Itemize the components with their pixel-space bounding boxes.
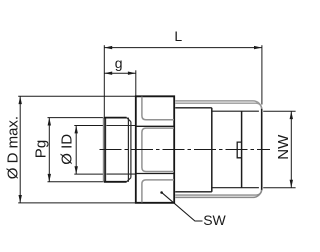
sleeve top edge <box>175 107 212 109</box>
hex chamfer arc middle facet <box>142 128 174 171</box>
dimension Pg arrow bottom <box>48 174 51 182</box>
hex nut outline <box>136 96 174 203</box>
body shell outer line bottom <box>175 189 262 198</box>
SW leader line <box>161 192 202 221</box>
dimension NW arrow bottom <box>290 180 293 188</box>
dimension ID line <box>75 126 77 175</box>
bore line top (thread zone) <box>106 125 135 127</box>
dimension ID extension bottom <box>74 173 103 175</box>
latch tab <box>237 142 241 158</box>
dimension ID extension top <box>74 125 103 127</box>
dimension L arrow left <box>104 46 112 49</box>
centerline <box>100 149 271 151</box>
svg-text:Ø D max.: Ø D max. <box>4 116 21 179</box>
thread end face <box>130 122 132 178</box>
body shell inner line bottom <box>175 190 262 195</box>
hex facet line lower <box>136 173 174 175</box>
svg-text:Ø ID: Ø ID <box>58 134 75 165</box>
dimension D max arrow bottom <box>19 195 22 203</box>
dimension Pg extension top <box>48 117 103 119</box>
dimension Pg extension bottom <box>48 181 103 183</box>
dimension g arrow right <box>128 72 136 75</box>
dimension ID arrow top <box>75 126 78 134</box>
sleeve bottom edge <box>175 191 212 193</box>
SW leader dot <box>160 191 163 194</box>
svg-text:Pg: Pg <box>32 140 49 158</box>
hex chamfer arc top facet <box>142 97 174 120</box>
dimension D max line <box>19 96 21 203</box>
dimension g extension right <box>135 70 137 96</box>
sleeve right edge <box>211 108 213 192</box>
body shell outer line top <box>175 101 262 110</box>
thread chamfer bottom <box>127 178 131 182</box>
svg-text:g: g <box>115 55 123 71</box>
dimension Pg arrow top <box>48 118 51 126</box>
thread runout line <box>127 118 129 182</box>
dimension NW extension bottom <box>263 187 295 189</box>
body right end face <box>261 109 263 190</box>
dimension NW arrow top <box>290 111 293 119</box>
dimension D max arrow top <box>19 96 22 104</box>
dimension ID arrow bottom <box>75 166 78 174</box>
fitting left end face <box>104 118 106 182</box>
bore opening top line <box>212 110 259 112</box>
dimension L line <box>104 47 262 49</box>
inner back wall <box>241 111 243 188</box>
svg-text:NW: NW <box>275 134 292 160</box>
dimension L extension line left <box>103 45 105 117</box>
body shell inner line top <box>175 103 262 108</box>
thread major diameter bottom edge <box>104 181 127 183</box>
hex chamfer arc bottom facet <box>142 180 174 203</box>
thread chamfer top <box>127 118 131 122</box>
dimension NW extension top <box>263 110 295 112</box>
svg-text:L: L <box>174 28 182 44</box>
dimension L arrow right <box>254 46 262 49</box>
dimension g arrow left <box>104 72 112 75</box>
thread major diameter top edge <box>104 117 127 119</box>
dimension D max extension top <box>18 95 135 97</box>
dimension D max extension bottom <box>18 202 135 204</box>
dimension g line <box>104 72 136 74</box>
hex facet line upper <box>136 125 174 127</box>
dimension Pg line <box>48 118 50 182</box>
dimension NW line <box>290 111 292 187</box>
dimension L extension line right <box>261 45 263 104</box>
bore opening bottom line <box>212 187 259 189</box>
bore line bottom (thread zone) <box>106 173 135 175</box>
svg-text:SW: SW <box>203 212 226 228</box>
